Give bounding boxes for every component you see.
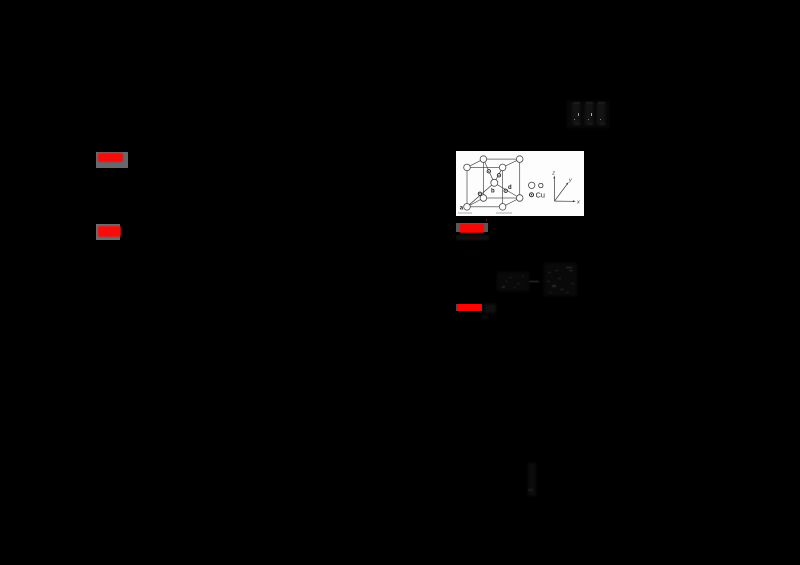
badge answer-tag 2 (gray box, red text) [96, 224, 120, 240]
badge answer-tag 4 (red bar) [456, 304, 459, 312]
tiny red speck above badge 3 [486, 219, 488, 221]
svg-text:b: b [491, 188, 495, 194]
O atoms: corners [464, 155, 523, 209]
badge answer-tag 1 (gray box, red text) [96, 152, 128, 168]
faint vertical mark bottom right [528, 463, 536, 496]
faint text line under badge 3 [456, 235, 489, 240]
svg-text:x: x [576, 199, 580, 205]
Cu atoms (small double circles) [478, 169, 507, 195]
O atom: body centre b [491, 179, 498, 186]
cube front face [467, 167, 503, 206]
labels a b d [460, 185, 512, 211]
connecting edges [467, 159, 483, 167]
faint equation top-right [567, 101, 609, 128]
svg-text:Cu: Cu [536, 190, 545, 199]
badge answer-tag 3 (gray strip with red core) [456, 223, 488, 231]
faint equation mid-right [497, 272, 529, 291]
svg-text:z: z [551, 170, 555, 176]
svg-text:d: d [508, 185, 512, 191]
crystal figure: white panel [456, 151, 584, 216]
caption remnants at panel bottom [458, 212, 472, 214]
cube back face [483, 159, 519, 198]
legend: O [529, 182, 535, 188]
svg-text:a: a [460, 205, 464, 211]
crystal figure: Cu2O unit cell SVG [456, 152, 585, 217]
axes [554, 177, 574, 201]
svg-text:y: y [568, 177, 573, 183]
svg-text:O: O [538, 180, 544, 189]
body diagonals [483, 159, 494, 183]
legend: Cu [530, 192, 534, 196]
